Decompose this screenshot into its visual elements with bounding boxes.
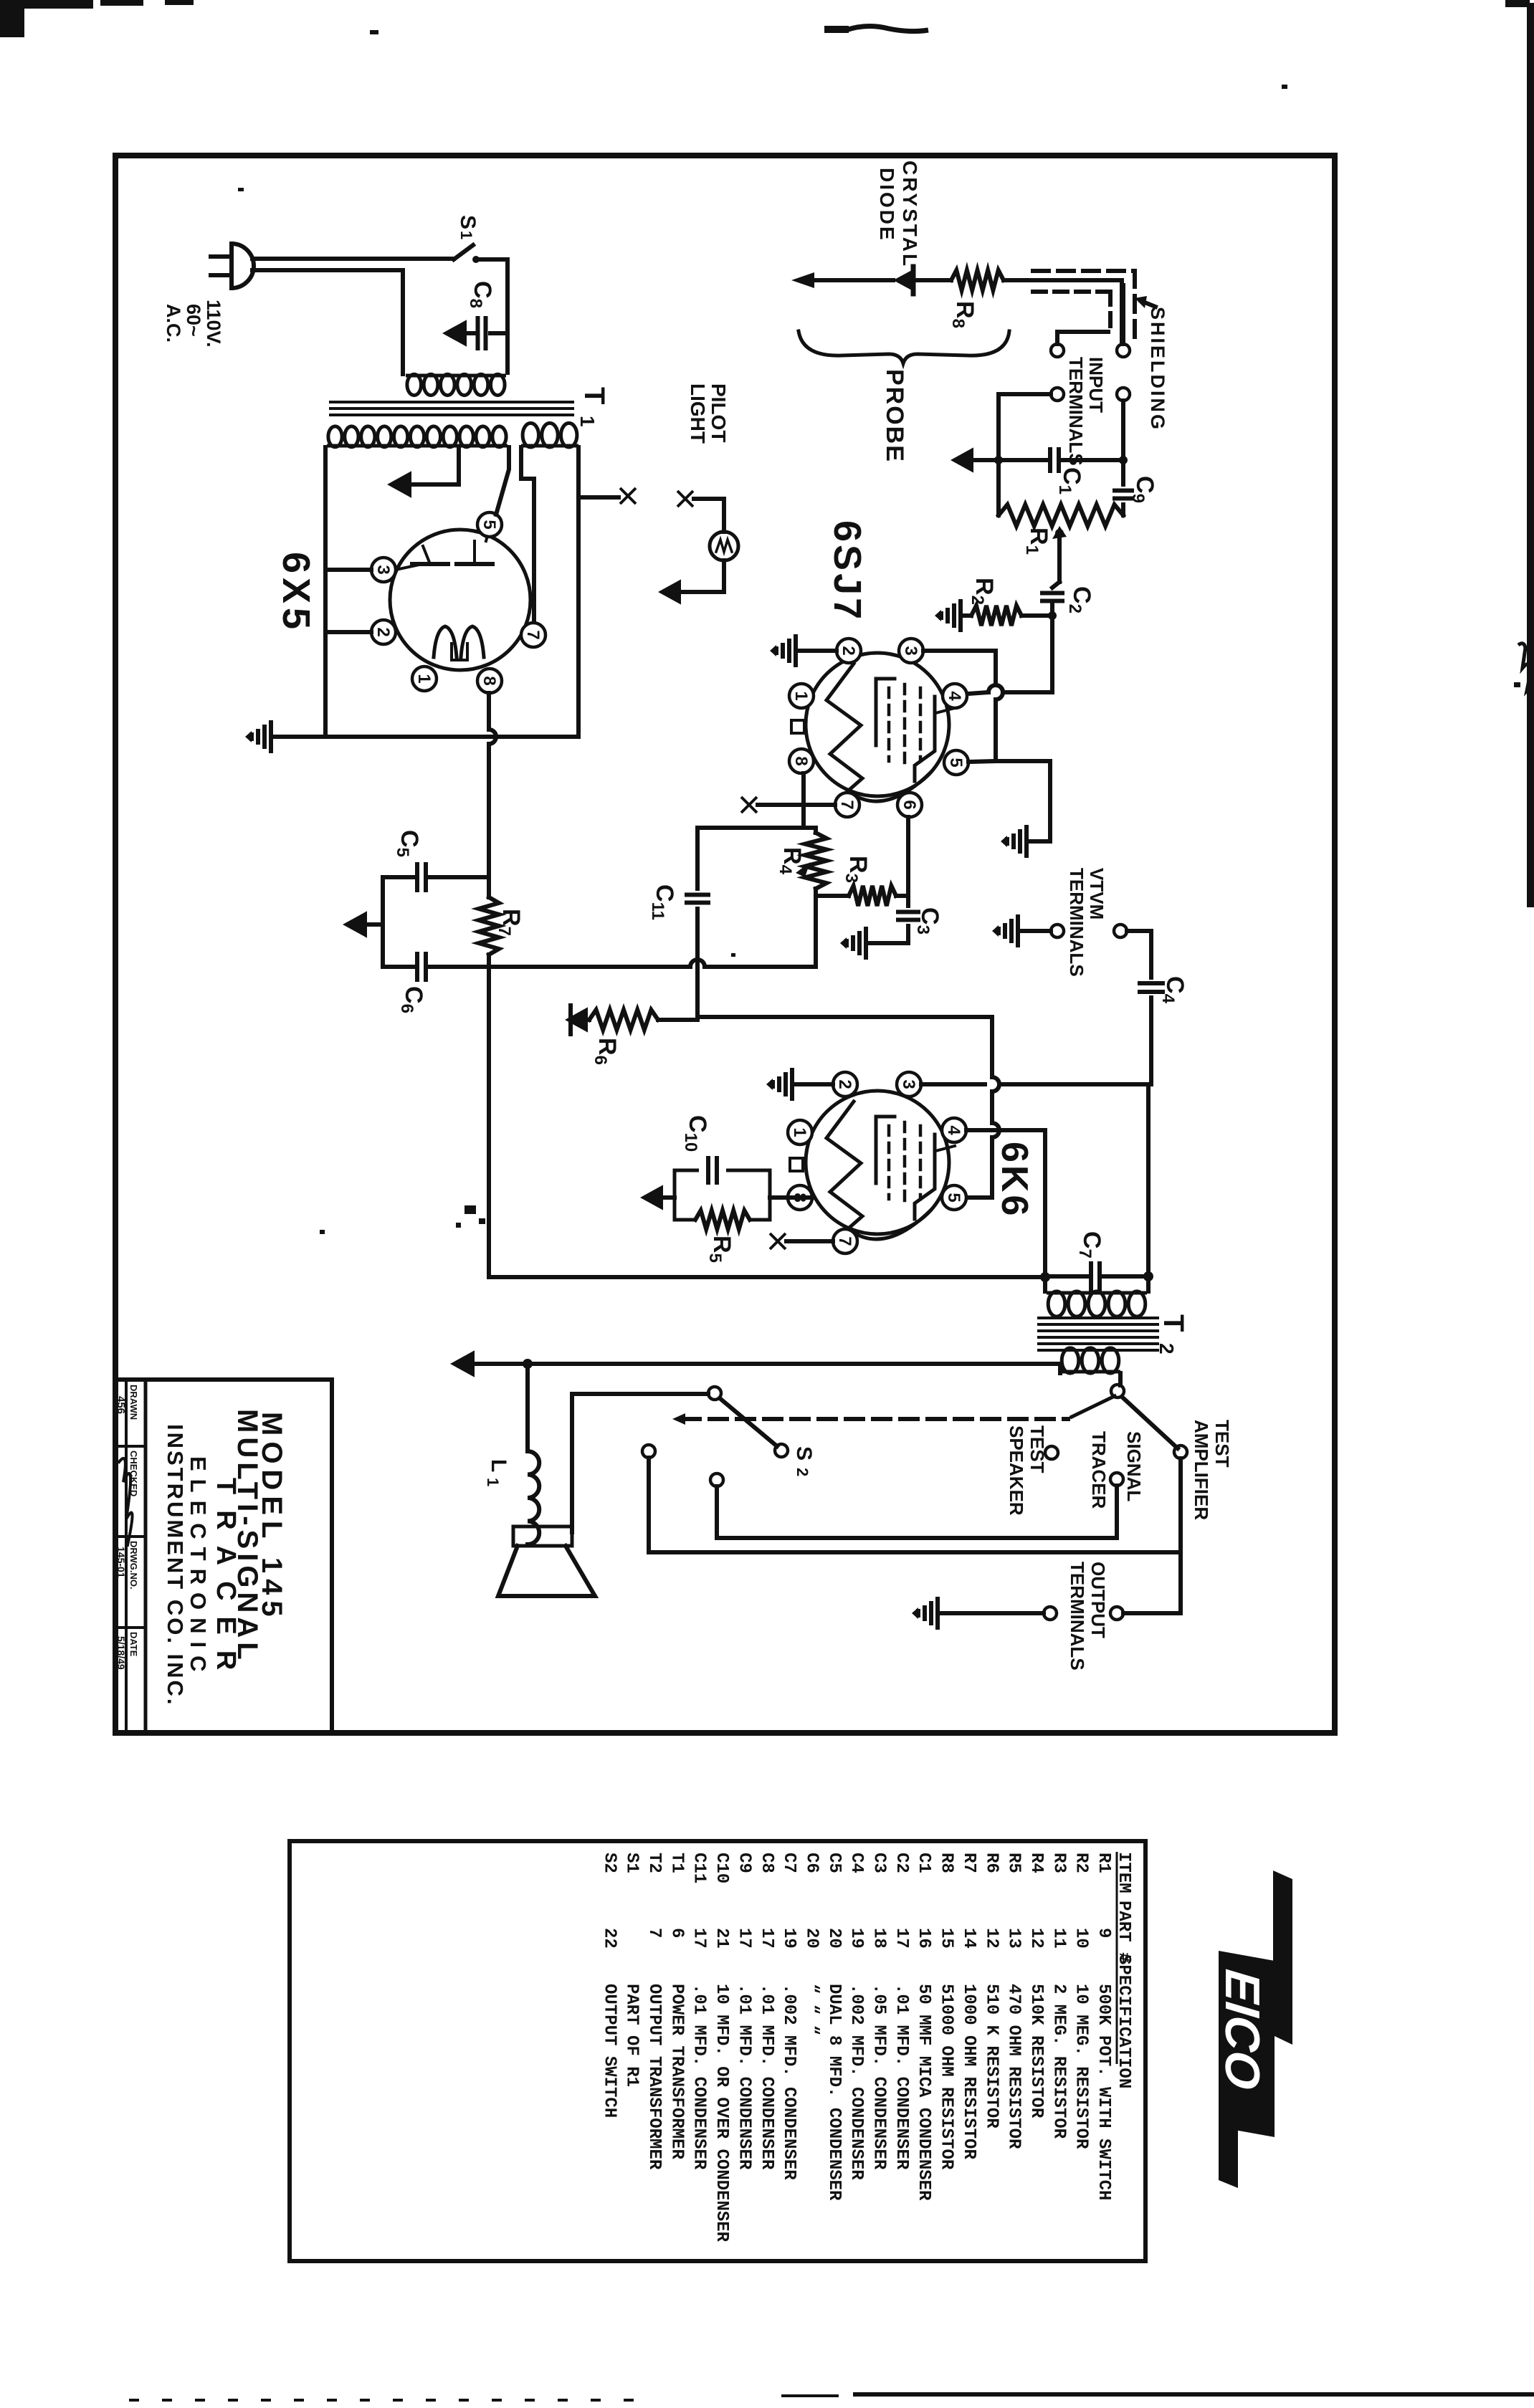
screen vertical with hop over grid wire [994,651,998,685]
svg-text:C5: C5 [824,1853,844,1873]
AC plug [229,244,234,288]
svg-text:T2: T2 [644,1853,664,1873]
svg-text:6: 6 [900,800,919,809]
svg-text:C10: C10 [712,1853,731,1883]
junction C1 left [994,456,1003,464]
scan artifact: top-left edge marks [0,0,93,9]
resistor R7 [479,897,499,955]
svg-text:C1: C1 [914,1853,933,1873]
B+ bus down and across [489,967,1043,1277]
svg-text:110V.: 110V. [203,300,224,348]
svg-text:7: 7 [837,800,857,809]
transformer T1 HV secondary winding [327,444,508,448]
svg-text:18: 18 [870,1928,889,1949]
6K6 pin 7 [833,1229,857,1253]
6X5 pin 2 [371,620,396,644]
capacitor C2 [1040,591,1064,596]
6SJ7 pin 5 [944,750,968,775]
6X5 pin 8 [477,669,502,693]
svg-text:3: 3 [901,646,920,655]
svg-text:20: 20 [824,1928,844,1949]
svg-text:ELECTRONIC: ELECTRONIC [186,1456,211,1680]
T1 HV center tap to ground [414,447,459,484]
svg-text:TEST: TEST [1026,1425,1048,1473]
svg-text:R3: R3 [1049,1853,1068,1873]
ground at 6SJ7 pin2 [794,634,798,667]
svg-text:1: 1 [484,1478,502,1486]
probe brace [799,331,1009,363]
svg-text:5: 5 [946,758,966,767]
svg-text:5/18/49: 5/18/49 [115,1636,127,1670]
svg-text:6SJ7: 6SJ7 [826,520,869,622]
6X5 pin 3 [371,558,396,582]
svg-text:.01 MFD. CONDENSER: .01 MFD. CONDENSER [892,1984,911,2170]
transformer T1 core [330,401,573,403]
wire test amplifier contact down to output terminal [1123,1458,1181,1613]
ground at 6K6 pin 2 [795,1082,833,1086]
svg-text:10 MFD. OR OVER CONDENSER: 10 MFD. OR OVER CONDENSER [712,1984,731,2242]
svg-text:1: 1 [457,231,475,239]
svg-text:.002 MFD. CONDENSER: .002 MFD. CONDENSER [847,1984,866,2180]
speaker [513,1526,572,1546]
wire 6SJ7 pin3 to screen node [923,649,996,653]
ground at C8 [442,320,467,346]
svg-text:TRACER: TRACER [1088,1431,1110,1509]
wire heater to pilot x [578,495,619,500]
svg-text:.002 MFD. CONDENSER: .002 MFD. CONDENSER [779,1984,799,2180]
plate vertical down to T2 [1146,1084,1150,1276]
svg-text:1: 1 [791,691,811,700]
wire HV winding left down to ground bus [323,447,328,737]
capacitor C4 [1138,981,1165,985]
svg-text:R4: R4 [1026,1853,1046,1873]
resistor R5 on box bottom [694,1215,751,1224]
svg-text:PART OF R1: PART OF R1 [622,1984,642,2087]
svg-text:60~: 60~ [183,304,204,337]
svg-text:TEST: TEST [1211,1420,1233,1468]
switch common terminal at T2 [1111,1385,1124,1397]
junction speaker line [523,1359,533,1369]
svg-text:51000 OHM RESISTOR: 51000 OHM RESISTOR [937,1984,956,2170]
tube 6X5 envelope [390,530,530,670]
wire 6X5 pin 2 [325,630,371,634]
switch S2 blade [720,1398,777,1446]
ground at C3 [869,941,908,945]
resistor R3 [816,894,849,898]
input terminal shield right [1117,344,1130,357]
svg-text:7: 7 [523,630,543,639]
svg-text:17: 17 [892,1928,911,1949]
wire R8 to input terminal [1004,280,1122,344]
scan artifact: bottom dotted line [129,2399,139,2402]
svg-text:3: 3 [899,1079,918,1089]
svg-text:INPUT: INPUT [1085,357,1107,413]
ground bus [274,735,578,739]
title strip signature [119,1458,133,1545]
switch S2 blade end [775,1444,788,1457]
svg-text:.01 MFD. CONDENSER: .01 MFD. CONDENSER [690,1984,709,2170]
svg-text:DIODE: DIODE [876,168,898,242]
svg-text:19: 19 [779,1928,799,1949]
S2 contact B [710,1473,723,1486]
6SJ7 pin 1 [789,684,814,708]
svg-text:17: 17 [690,1928,709,1949]
contact TEST SPEAKER [1045,1446,1058,1459]
svg-text:R8: R8 [937,1853,956,1873]
ground at C1 [973,458,999,462]
parts row S2 [115,161,1292,2242]
ground at C1 [951,447,973,472]
resistor R6 [589,1010,658,1030]
6K6 internals [826,1102,862,1232]
svg-text:22: 22 [599,1928,619,1949]
svg-text:R5: R5 [1004,1853,1024,1873]
6K6 pin 5 [942,1185,966,1210]
ground at R6 [565,1007,588,1032]
svg-text:TERMINALS: TERMINALS [1067,1562,1088,1671]
junction plate / T2 primary [1143,1271,1153,1281]
svg-text:1: 1 [790,1127,809,1137]
x mark 6K6 heater [770,1233,786,1249]
capacitor C9 [1121,460,1125,484]
svg-text:SPEAKER: SPEAKER [1006,1425,1027,1516]
tube 6K6 envelope [806,1091,949,1234]
wire C2 to 6SJ7 grid pin 4 with hop [1003,690,1052,694]
svg-text:20: 20 [801,1928,821,1949]
6SJ7 pin 8 [789,749,814,773]
svg-text:10: 10 [1072,1928,1091,1949]
scan artifact: right edge handwriting [1518,644,1534,695]
svg-text:15: 15 [937,1928,956,1949]
parts list box [290,1841,1145,2261]
output terminal left [1044,1607,1057,1620]
switch S2 common [708,1387,721,1400]
resistor R4 [805,833,826,889]
svg-text:7: 7 [835,1236,854,1246]
svg-text:C2: C2 [892,1853,911,1873]
svg-text:R2: R2 [1072,1853,1091,1873]
svg-text:1: 1 [414,674,434,683]
capacitor C1 [999,458,1046,462]
x mark 6SJ7 heater [741,797,757,813]
crystal diode [893,270,912,290]
svg-text:4: 4 [945,691,964,701]
6SJ7 pin 2 [837,639,861,663]
wire HV right to 6X5 pin 5 [496,447,509,515]
6SJ7 key [791,720,804,733]
svg-text:C6: C6 [801,1853,821,1873]
resistor R2 [971,606,1021,626]
T2 primary winding [1047,1291,1147,1295]
shielding pointer [1141,301,1156,307]
wire 6K6 plate pin 3 to C4/T2 [921,1082,985,1086]
svg-text:7: 7 [644,1928,664,1938]
svg-text:PILOT: PILOT [708,383,730,442]
svg-text:.05 MFD. CONDENSER: .05 MFD. CONDENSER [870,1984,889,2170]
svg-text:8: 8 [791,756,811,765]
svg-text:OUTPUT SWITCH: OUTPUT SWITCH [599,1984,619,2118]
svg-text:12: 12 [981,1928,1001,1949]
svg-text:456: 456 [115,1396,127,1414]
T2 core [1039,1317,1158,1319]
ground at output terminals [935,1597,940,1630]
signal tracer wire [1115,1486,1119,1538]
svg-text:VTVM: VTVM [1086,868,1107,919]
scan artifact: top smudge [846,26,928,31]
VTVM terminal right [1114,924,1127,937]
6SJ7 pin 4 [943,684,967,708]
svg-text:L: L [487,1459,510,1472]
svg-text:TERMINALS: TERMINALS [1065,357,1087,466]
svg-text:S1: S1 [622,1853,642,1873]
svg-text:R6: R6 [981,1853,1001,1873]
svg-text:T1: T1 [667,1853,686,1873]
ground at R2 [958,599,963,632]
potentiometer R1 [999,505,1123,526]
shielding dashed lines [1033,269,1135,273]
wire 6SJ7 plate pin 8 down [801,773,806,828]
svg-text:R1: R1 [1094,1853,1113,1873]
wire pilot light [694,499,724,532]
svg-text:470 OHM RESISTOR: 470 OHM RESISTOR [1004,1984,1024,2149]
svg-text:S2: S2 [599,1853,619,1873]
wire C11/R6 node to 6K6 grid [697,1015,992,1019]
output terminal right [1110,1607,1123,1620]
svg-text:2: 2 [1156,1343,1178,1354]
svg-text:6: 6 [667,1928,686,1938]
svg-text:EICO: EICO [1215,1967,1269,2092]
svg-text:DATE: DATE [128,1632,139,1657]
input terminal shield left [1051,344,1064,357]
svg-text:17: 17 [757,1928,776,1949]
title block box [118,1377,332,1382]
svg-text:16: 16 [914,1928,933,1949]
svg-text:R7: R7 [959,1853,978,1873]
6SJ7 pin 3 [899,639,923,663]
svg-text:SHIELDING: SHIELDING [1147,307,1168,431]
wire x to 6SJ7 pin 7 [758,803,835,807]
cathode network C10 R5 box [770,1195,812,1200]
capacitor C3 [906,896,910,906]
wire lower-left input terminal to C1 line [999,394,1051,460]
svg-text:1: 1 [576,416,599,427]
svg-text:21: 21 [712,1928,731,1949]
ground at cathode box [663,1195,675,1200]
blade at T2 side [1072,1396,1115,1417]
svg-text:DUAL 8 MFD. CONDENSER: DUAL 8 MFD. CONDENSER [824,1984,844,2201]
6SJ7 pin 6 [897,793,922,817]
svg-text:C4: C4 [847,1853,866,1873]
B+ bus to R4 with hop over C11 line [489,965,690,969]
ground at 6K6 cathode [640,1185,663,1210]
filter left leg with ground [381,877,385,967]
node R4 bottom [814,896,818,967]
svg-text:3: 3 [373,565,393,574]
svg-text:12: 12 [1026,1928,1046,1949]
contact SIGNAL TRACER [1110,1473,1123,1486]
svg-text:DRWG.NO.: DRWG.NO. [128,1541,139,1590]
ground at pilot light [658,579,681,604]
svg-text:OUTPUT TRANSFORMER: OUTPUT TRANSFORMER [644,1984,664,2170]
svg-text:CHECKED: CHECKED [128,1451,139,1496]
6X5 pin 7 [521,623,546,647]
svg-text:A.C.: A.C. [163,304,184,343]
capacitor C7 across T2 primary [1045,1274,1087,1279]
scan speck marks [370,30,378,34]
capacitor C10 [706,1156,710,1185]
ground at 6SJ7 pin 2 [799,649,837,653]
resistor R8 [951,270,1004,290]
tube 6SJ7 envelope [806,653,949,796]
S2 contact A [642,1445,655,1458]
junction B+ / T2 primary [1040,1272,1050,1282]
svg-text:CRYSTAL: CRYSTAL [899,161,921,268]
svg-text:2: 2 [839,646,858,655]
svg-text:19: 19 [847,1928,866,1949]
svg-text:11: 11 [1049,1928,1068,1949]
wire R1 wiper to C2 [1057,536,1062,582]
6SJ7 internals [826,664,862,794]
6X5 filament [434,626,457,657]
6X5 pin 5 [477,512,502,537]
svg-text:S: S [456,215,480,229]
transformer T1 heater winding [521,444,578,448]
svg-text:C3: C3 [870,1853,889,1873]
screen node to ground [996,761,1050,841]
svg-text:2: 2 [835,1079,854,1089]
transformer T1 primary winding [406,374,506,378]
svg-text:5: 5 [944,1193,963,1202]
svg-text:13: 13 [1004,1928,1024,1949]
svg-text:.01 MFD. CONDENSER: .01 MFD. CONDENSER [734,1984,753,2170]
svg-text:INSTRUMENT CO. INC.: INSTRUMENT CO. INC. [163,1424,188,1707]
AC cord wires [252,257,454,261]
svg-text:2: 2 [373,627,393,636]
svg-text:14: 14 [959,1928,978,1949]
wire VTVM to C4 [1127,931,1151,978]
svg-text:S: S [792,1446,816,1461]
6K6 pin 8 [788,1185,812,1210]
switch S1 [454,245,473,259]
svg-text:DRAWN: DRAWN [128,1385,139,1420]
svg-text:C8: C8 [757,1853,776,1873]
svg-text:LIGHT: LIGHT [687,383,709,444]
6K6 pin 2 [833,1072,857,1096]
6X5 pin 1 [412,666,437,691]
scan artifact: right edge black bar [1527,3,1534,907]
svg-text:C11: C11 [690,1853,709,1883]
input terminal hot right [1117,388,1130,401]
svg-text:TRACER: TRACER [211,1478,241,1686]
wire lower-right input terminal down [1121,401,1125,460]
svg-text:.01 MFD. CONDENSER: .01 MFD. CONDENSER [757,1984,776,2170]
svg-text:SIGNAL: SIGNAL [1123,1431,1145,1501]
svg-text:500K POT. WITH SWITCH: 500K POT. WITH SWITCH [1094,1984,1113,2200]
pilot lamp [710,532,738,560]
wire 6SJ7 pin6 down [906,817,910,896]
scan artifact: bottom-right edge line [853,2392,1534,2397]
svg-text:4: 4 [944,1125,963,1135]
ground at 6SJ7 screen [1024,825,1029,858]
wire 6K6 screen pin 4 [966,1130,1045,1277]
plate node line [697,826,816,830]
svg-text:510 K RESISTOR: 510 K RESISTOR [981,1984,1001,2128]
svg-text:9: 9 [1094,1928,1113,1938]
x mark pilot [677,491,693,507]
6SJ7 pin 7 [835,793,859,817]
ground at filter [343,911,367,937]
svg-text:5: 5 [480,520,499,529]
svg-text:C7: C7 [779,1853,799,1873]
wire 6X5 plate pin 3 [325,568,371,572]
svg-text:TERMINALS: TERMINALS [1066,868,1087,977]
svg-text:POWER TRANSFORMER: POWER TRANSFORMER [667,1984,686,2159]
ground at 6K6 pin2 [790,1068,794,1101]
6K6 pin 1 [788,1120,812,1145]
capacitor C8 [490,331,508,335]
junction R2/C2 [1048,611,1057,620]
svg-text:8: 8 [790,1193,809,1202]
ground at VTVM [1016,914,1020,947]
svg-text:50 MMF MICA CONDENSER: 50 MMF MICA CONDENSER [914,1984,933,2201]
ground at T2 secondary [450,1350,475,1377]
svg-text:AMPLIFIER: AMPLIFIER [1191,1420,1212,1520]
wire S1 to T1 primary [479,259,508,373]
svg-text:6X5: 6X5 [275,552,318,634]
VTVM terminal left [1051,924,1064,937]
svg-text:OUTPUT: OUTPUT [1087,1562,1109,1638]
speaker coil L1 [528,1451,539,1544]
svg-text:17: 17 [734,1928,753,1949]
svg-text:2: 2 [794,1468,811,1476]
input terminal hot left [1051,388,1064,401]
capacitor C5 [383,875,413,879]
wire to 6SJ7 pin5 [968,761,996,762]
wire T1 heater left to 6X5 pin 7 [521,447,534,623]
ground at T1 center tap [387,471,411,497]
svg-text:C9: C9 [734,1853,753,1873]
svg-text:T: T [578,387,610,404]
wire T1 heater right down [576,447,581,737]
svg-text:T: T [1158,1314,1189,1332]
svg-text:510K RESISTOR: 510K RESISTOR [1026,1984,1046,2118]
svg-text:PROBE: PROBE [881,369,908,463]
svg-text:“ “ “: “ “ “ [801,1984,821,2035]
wire speaker to S2 common [572,1394,708,1532]
junction R1 wiper [1055,529,1064,537]
ground at C3 [864,927,868,960]
capacitor C6 [383,965,413,969]
svg-text:8: 8 [480,676,499,685]
coupling capacitor C11 [695,828,700,889]
6K6 pin 3 [897,1072,921,1096]
probe tip arrow [801,278,893,282]
6K6 pin 4 [942,1118,966,1142]
contact TEST AMPLIFIER [1174,1446,1187,1458]
T2 secondary winding [1060,1370,1120,1374]
ground at main bus [269,720,273,753]
svg-text:2 MEG. RESISTOR: 2 MEG. RESISTOR [1049,1984,1068,2139]
svg-text:10 MEG. RESISTOR: 10 MEG. RESISTOR [1072,1984,1091,2149]
x mark filament [620,488,636,504]
EICO logo [1215,1870,1292,2188]
svg-text:145-01: 145-01 [115,1547,127,1578]
switch linkage dashed [682,1417,1068,1421]
svg-text:1000 OHM RESISTOR: 1000 OHM RESISTOR [959,1984,978,2159]
wire 6X5 cathode pin 8 down (B+) with hop over ground bus [487,693,491,730]
title strip dividers [125,1380,128,1732]
svg-text:6K6: 6K6 [994,1142,1035,1218]
